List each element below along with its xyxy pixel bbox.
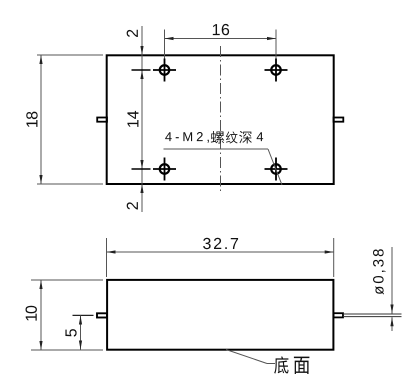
left side boss [97,118,107,122]
mounting hole M2 bottom-right [265,158,288,181]
lead wire (double line) [343,314,402,317]
dim text ø0,38 [373,249,385,294]
dim text 14 [127,111,138,127]
right pin stub [334,313,344,317]
note text 螺 [211,131,224,144]
left pin stub [97,313,107,317]
mounting hole M2 top-right [265,59,288,82]
dim text 10 [26,306,37,321]
label text 面 [294,357,309,374]
note text 深 [239,131,252,143]
note text 4-M2, (latin part) [165,132,209,143]
top view body outline [107,55,334,184]
leader line for bottom-face label [226,350,275,364]
mounting hole M2 bottom-left [153,158,176,181]
mounting hole M2 top-left [153,59,176,82]
right side boss [334,118,344,122]
note text 4 (thread depth) [257,132,264,141]
dimension 32.7 (overall width) [107,238,334,277]
dimension 5 (pin height) [73,315,94,349]
dimension column x=142: 2 / 14 / 2 [132,26,151,212]
vertical centerline [220,46,222,192]
note text 纹 [226,132,238,144]
dimension 18 (overall height) [37,55,103,184]
dimension 16 (hole spacing horizontal) [165,30,277,59]
bottom view body outline [107,280,333,350]
dimension ø0,38 (wire diameter) [390,247,393,331]
dim text 2 (top) [127,30,138,37]
dim text 18 [26,112,37,127]
dim text 2 (bottom) [127,202,138,209]
leader line for thread note [164,149,283,185]
dimension 10 (body height) [31,280,103,350]
label text 底 [274,356,288,373]
dim text 32.7 [203,238,238,249]
dim text 16 [213,24,229,35]
dim text 5 [65,329,76,337]
